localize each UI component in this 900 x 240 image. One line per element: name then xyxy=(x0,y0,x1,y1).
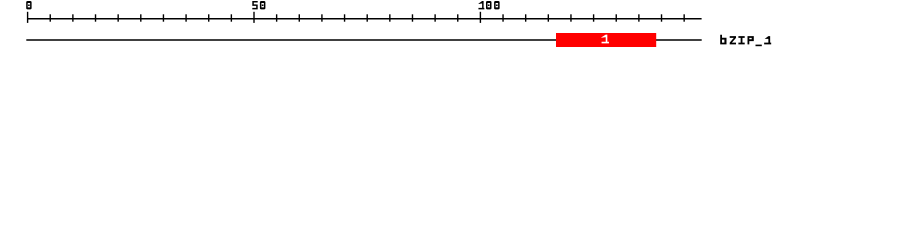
minor tick 135 xyxy=(638,14,640,21)
minor tick 20 xyxy=(117,14,119,21)
minor tick 30 xyxy=(162,14,164,21)
major tick 100 xyxy=(479,12,481,23)
minor tick 115 xyxy=(547,14,549,21)
minor tick 15 xyxy=(95,14,97,21)
minor tick 90 xyxy=(434,14,436,21)
domain number 1 (white) xyxy=(601,35,609,44)
minor tick 145 xyxy=(683,14,685,21)
minor tick 45 xyxy=(230,14,232,21)
minor tick 10 xyxy=(72,14,74,21)
minor tick 75 xyxy=(366,14,368,21)
minor tick 95 xyxy=(457,14,459,21)
minor tick 85 xyxy=(411,14,413,21)
minor tick 35 xyxy=(185,14,187,21)
ruler axis line xyxy=(27,18,701,20)
minor tick 55 xyxy=(276,14,278,21)
minor tick 140 xyxy=(661,14,663,21)
minor tick 120 xyxy=(570,14,572,21)
minor tick 65 xyxy=(321,14,323,21)
minor tick 130 xyxy=(615,14,617,21)
minor tick 25 xyxy=(140,14,142,21)
domain box bZIP_1 (red) xyxy=(556,33,656,47)
ruler label 0 xyxy=(26,1,31,9)
sequence line xyxy=(26,39,701,41)
minor tick 110 xyxy=(525,14,527,21)
minor tick 125 xyxy=(593,14,595,21)
major tick 50 xyxy=(253,12,255,23)
minor tick 60 xyxy=(298,14,300,21)
ruler label 50 xyxy=(252,1,265,9)
domain name label bZIP_1 xyxy=(720,35,771,46)
minor tick 5 xyxy=(49,14,51,21)
ruler label 100 xyxy=(478,1,499,9)
major tick 0 xyxy=(27,12,29,23)
minor tick 70 xyxy=(344,14,346,21)
minor tick 80 xyxy=(389,14,391,21)
minor tick 40 xyxy=(208,14,210,21)
minor tick 105 xyxy=(502,14,504,21)
